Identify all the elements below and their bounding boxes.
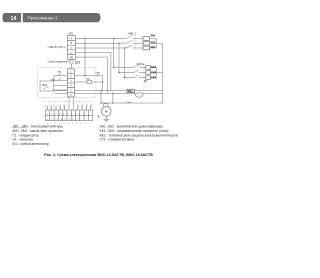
VK1 contact mark bbox=[43, 86, 49, 89]
wire XP1 to control strip bbox=[70, 60, 72, 69]
heater EK4 bbox=[146, 66, 151, 70]
svg-text:В: В bbox=[71, 41, 73, 45]
control wire cs-aux bbox=[75, 75, 103, 77]
contact KM1.1b bbox=[126, 40, 143, 43]
svg-text:ЕК2: ЕК2 bbox=[151, 40, 156, 44]
svg-text:Приложение 2: Приложение 2 bbox=[28, 15, 59, 20]
motor ground stem bbox=[105, 116, 107, 119]
svg-text:≈380 В, 50 Гц: ≈380 В, 50 Гц bbox=[48, 45, 66, 49]
fuse ST1 bbox=[69, 60, 73, 64]
svg-text:Н1 - нагрузка: Н1 - нагрузка bbox=[13, 138, 33, 142]
contact KM1.2a bbox=[134, 65, 146, 68]
svg-text:КМ1.1: КМ1.1 bbox=[128, 32, 136, 36]
wire EK1 out bbox=[150, 37, 157, 39]
wire W2 phase B bbox=[75, 42, 126, 44]
coil KM2 box bbox=[127, 89, 135, 92]
X1 cell marks bbox=[70, 71, 72, 98]
heater EK3 bbox=[143, 46, 150, 50]
svg-text:ЕК5: ЕК5 bbox=[151, 70, 156, 74]
svg-text:абвгдежикл: абвгдежикл bbox=[47, 119, 83, 121]
wire EK6 out bbox=[151, 77, 157, 79]
svg-text:SA1, SA2 - выключатели однокла: SA1, SA2 - выключатели одноклавишные bbox=[100, 124, 164, 128]
switch SA1 wire bbox=[54, 73, 67, 76]
control wire cs-coil bbox=[75, 81, 103, 83]
svg-text:14: 14 bbox=[11, 16, 17, 22]
terminal strip XP1 bbox=[68, 36, 76, 60]
svg-text:Схема управления: Схема управления bbox=[48, 60, 70, 63]
bottom terminal strip X2 bbox=[45, 110, 92, 121]
svg-text:жкзбгкржсзбкгр: жкзбгкржсзбкгр bbox=[44, 101, 93, 103]
wire EK4 out bbox=[151, 66, 157, 68]
svg-text:Рис. 4. Схема электрическая ВН: Рис. 4. Схема электрическая ВНО-12,5АСТВ… bbox=[44, 153, 153, 157]
svg-text:1 мкФ: 1 мкФ bbox=[125, 101, 131, 104]
thermostat VK1 box bbox=[40, 81, 53, 91]
bus N bbox=[53, 90, 162, 92]
svg-text:ЕК4: ЕК4 bbox=[151, 65, 156, 69]
motor feed left bbox=[100, 91, 102, 103]
contact KM1.2b bbox=[134, 70, 146, 73]
VK1 to strip wire bbox=[53, 84, 67, 86]
dashed control box bbox=[38, 67, 96, 97]
wire W5 bbox=[75, 57, 107, 93]
svg-text:КМ1: КМ1 bbox=[86, 79, 91, 81]
svg-text:СТ1: СТ1 bbox=[75, 61, 80, 65]
vertical drop V2 to KM1.2 row2 bbox=[119, 43, 134, 72]
wire W1 phase A bbox=[75, 37, 126, 39]
mechanical link KM1.1 bbox=[134, 36, 136, 50]
svg-text:ВК1 - тепловое реле защиты эле: ВК1 - тепловое реле защиты электровентил… bbox=[100, 133, 178, 137]
VK1 to strip wire 2 bbox=[53, 89, 67, 91]
legend left column bbox=[13, 124, 64, 146]
svg-text:ХР1: ХР1 bbox=[68, 31, 74, 35]
contact KM1.1c bbox=[126, 45, 143, 48]
svg-text:КМ1, КМ2 - магнитные пускатели: КМ1, КМ2 - магнитные пускатели bbox=[13, 129, 64, 133]
heater EK2 bbox=[143, 41, 150, 45]
junction dots bbox=[84, 38, 125, 118]
X2 entry wires bbox=[48, 97, 91, 110]
svg-text:ЕК1: ЕК1 bbox=[151, 33, 156, 37]
svg-text:ВК1: ВК1 bbox=[43, 84, 48, 87]
motor terminal box bbox=[104, 104, 108, 107]
wire W3 phase C bbox=[75, 47, 126, 49]
svg-text:PE: PE bbox=[70, 56, 74, 60]
wire W4 neutral bbox=[75, 52, 111, 90]
vertical aux to bus bbox=[102, 76, 104, 91]
ground symbol bbox=[103, 120, 109, 122]
svg-text:ЕК6: ЕК6 bbox=[151, 75, 156, 79]
svg-text:ДВ1...ДВ3 - электровентиляторы: ДВ1...ДВ3 - электровентиляторы bbox=[13, 124, 64, 128]
contact KM1.2c bbox=[134, 75, 146, 78]
svg-text:КМ2: КМ2 bbox=[128, 90, 133, 93]
control terminal strip X1 bbox=[67, 69, 74, 97]
SA drop to VK1 bbox=[53, 76, 55, 81]
svg-text:N: N bbox=[70, 51, 72, 55]
motor bottom jog bbox=[101, 102, 163, 104]
contact KM2 aux bbox=[96, 73, 99, 76]
svg-text:М1 - осевой вентилятор: М1 - осевой вентилятор bbox=[13, 142, 50, 146]
return wire right side bbox=[162, 43, 164, 103]
svg-text:СТ1 - плавкая вставка: СТ1 - плавкая вставка bbox=[100, 138, 134, 142]
heater EK1 bbox=[143, 37, 150, 41]
bracket group2 bbox=[156, 67, 162, 77]
header title bar bbox=[23, 13, 101, 22]
wire EK5 out bbox=[151, 72, 157, 74]
mechanical link KM1.2 bbox=[143, 65, 145, 89]
svg-text:1234567891: 1234567891 bbox=[47, 113, 87, 115]
vertical drop V3 to KM1.2 row3 bbox=[125, 48, 134, 78]
svg-text:А: А bbox=[71, 36, 73, 40]
control feed drop from W1 bbox=[84, 38, 86, 75]
legend right column bbox=[100, 124, 178, 141]
motor M1 circle bbox=[102, 107, 112, 117]
svg-text:КМ2: КМ2 bbox=[96, 72, 101, 74]
svg-text:КМ1.2: КМ1.2 bbox=[137, 62, 145, 66]
fan-in wires to X2 bbox=[45, 105, 92, 111]
switch SA2 wire bbox=[54, 78, 67, 81]
wire EK2 out bbox=[150, 42, 157, 44]
motor feed right bbox=[112, 93, 114, 103]
bus PE bbox=[55, 92, 163, 94]
wire EK3 out bbox=[150, 47, 157, 49]
heater EK5 bbox=[146, 71, 151, 75]
heater EK6 bbox=[146, 76, 151, 80]
XP1 cell marks bbox=[70, 36, 74, 59]
capacitor C1 bbox=[135, 93, 143, 98]
header page number box bbox=[3, 13, 22, 22]
svg-text:ЕК3: ЕК3 bbox=[151, 45, 156, 49]
bracket group1 bbox=[156, 38, 162, 48]
svg-text:С1 - конденсатор: С1 - конденсатор bbox=[13, 133, 40, 137]
contact KM1.1a bbox=[126, 36, 143, 39]
svg-text:С: С bbox=[70, 46, 72, 50]
svg-text:ЕК1...ЕК6 - нагревательные эле: ЕК1...ЕК6 - нагревательные элементы (тэн… bbox=[100, 129, 169, 133]
coil KM1 bbox=[87, 80, 92, 83]
vertical drop V1 to KM1.2 row1 bbox=[114, 38, 134, 67]
